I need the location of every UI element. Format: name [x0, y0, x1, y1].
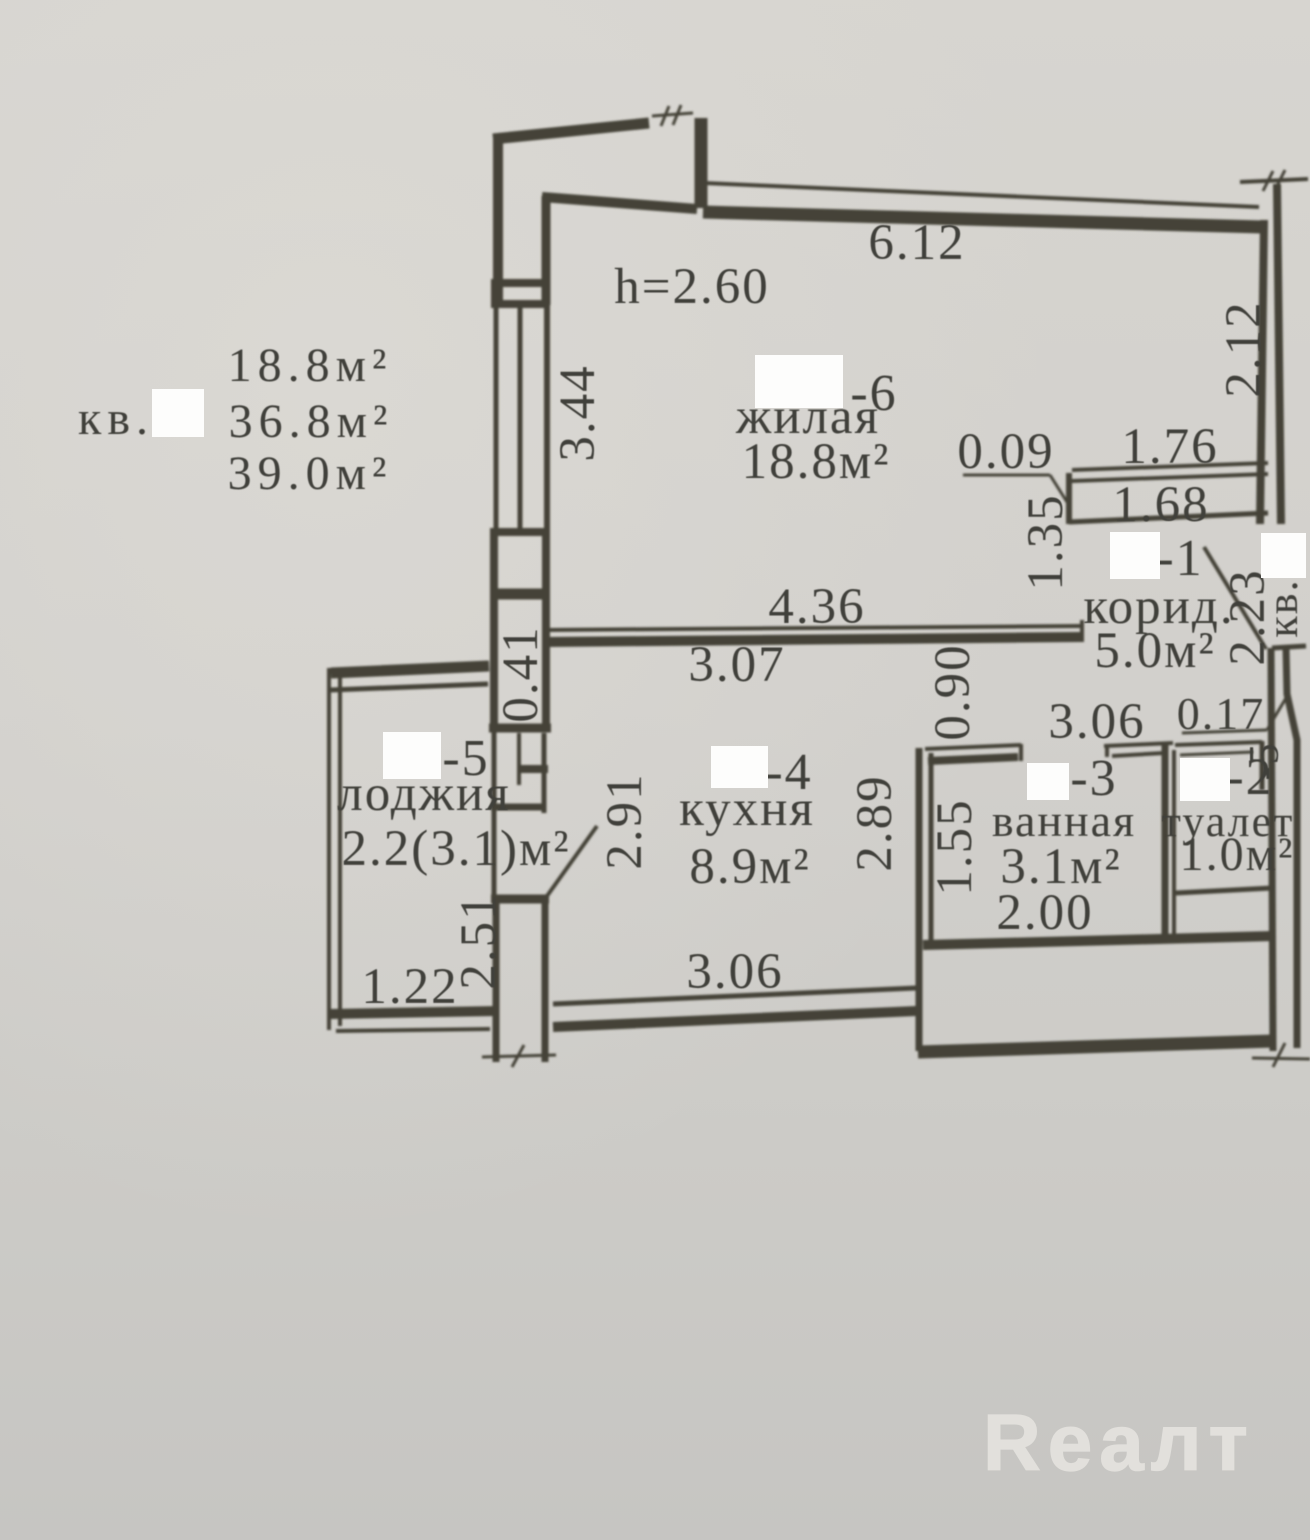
vannaya top thin: [925, 745, 1021, 749]
leader diagonal 2.23: [1204, 547, 1266, 649]
wall: zhilaya top thick line: [703, 212, 1263, 227]
svg-text:2.00: 2.00: [996, 885, 1093, 941]
svg-text:1.35: 1.35: [1018, 493, 1074, 590]
window2 (kitchen): [492, 732, 497, 896]
wall: right upper outer: [1277, 184, 1281, 524]
svg-text:-5: -5: [1242, 742, 1288, 781]
pier2 block with 0.41: [491, 528, 549, 536]
corridor 1.68 inner line: [1069, 513, 1268, 522]
svg-text:0.17: 0.17: [1177, 688, 1266, 739]
svg-text:2.2(3.1)м²: 2.2(3.1)м²: [341, 821, 570, 877]
svg-text:кв.: кв.: [1258, 578, 1307, 637]
svg-text:0.09: 0.09: [957, 424, 1054, 480]
svg-text:3.44: 3.44: [550, 364, 606, 461]
redaction -1: [1110, 532, 1160, 579]
break ticks top-center: [652, 113, 693, 116]
dim line 0.17: [1182, 730, 1267, 733]
lodzhiya top thin: [331, 684, 488, 690]
dim line 0.09: [963, 474, 1050, 477]
redaction -5: [383, 732, 441, 779]
vannaya door stub: [1019, 744, 1023, 761]
wall: bottom-right exterior: [918, 1041, 1274, 1052]
redaction kv number: [152, 389, 204, 437]
lodzhiya bottom thick: [330, 1011, 497, 1014]
svg-text:3.06: 3.06: [686, 944, 783, 1000]
svg-text:1.22: 1.22: [361, 959, 458, 1015]
svg-text:Reaлт: Reaлт: [983, 1398, 1255, 1487]
interior wall 4.36 thin: [545, 626, 1082, 630]
svg-text:h=2.60: h=2.60: [614, 259, 770, 315]
redaction right edge: [1261, 533, 1306, 578]
toilet inner top line: [1180, 752, 1253, 755]
svg-text:2.91: 2.91: [597, 772, 653, 869]
wall: right lower cap: [1272, 646, 1306, 648]
toilet top wall: [1175, 742, 1262, 745]
kitchen bottom thin: [553, 988, 916, 1004]
svg-text:18.8м²: 18.8м²: [228, 339, 393, 392]
interior wall end stub: [1080, 620, 1084, 642]
svg-text:1.55: 1.55: [927, 798, 983, 895]
svg-text:кухня: кухня: [679, 781, 815, 837]
lodzhiya top thick: [331, 666, 489, 673]
svg-text:3.07: 3.07: [688, 637, 785, 693]
svg-text:4.36: 4.36: [768, 579, 865, 635]
svg-text:3.06: 3.06: [1048, 694, 1145, 750]
vannaya left inner wall: [929, 753, 934, 941]
svg-text:-3: -3: [1070, 750, 1117, 807]
svg-text:1.68: 1.68: [1112, 477, 1209, 533]
svg-text:2.89: 2.89: [847, 774, 903, 871]
svg-text:1.0м²: 1.0м²: [1180, 828, 1295, 881]
pier3 bottom: [491, 895, 549, 904]
svg-text:8.9м²: 8.9м²: [689, 839, 810, 895]
redaction -3: [1027, 763, 1069, 800]
svg-text:36.8м²: 36.8м²: [229, 395, 394, 448]
window1 (zhilaya): [494, 307, 499, 528]
toilet bottom line: [1176, 888, 1272, 893]
redaction -2: [1180, 758, 1230, 801]
lodzhiya bottom thin: [336, 1029, 490, 1031]
wall: zhilaya inner top-left line: [542, 197, 697, 209]
svg-text:0.41: 0.41: [493, 625, 549, 722]
break ticks bottom pier: [482, 1055, 556, 1057]
svg-text:2.51: 2.51: [451, 892, 507, 989]
svg-text:39.0м²: 39.0м²: [228, 447, 393, 500]
interior wall 4.36 thick: [546, 637, 1082, 642]
leader diagonal 2.91: [547, 826, 597, 896]
redaction -6: [755, 355, 843, 408]
wall: top-left outer horizontal: [493, 123, 649, 139]
wall: right lower inner: [1271, 648, 1273, 1051]
lodzhiya left double: [327, 668, 331, 1030]
vannaya top thick: [928, 757, 1018, 761]
corridor left stub: [1066, 473, 1072, 524]
toilet right stub: [1260, 741, 1265, 790]
break tick bottom-right: [1252, 1058, 1310, 1059]
svg-text:2.12: 2.12: [1216, 300, 1272, 397]
wall: top pillar: [695, 118, 708, 208]
kitchen bottom thick: [553, 1011, 916, 1027]
break ticks top-right: [1240, 179, 1308, 182]
wall: right lower outer with 0.17 jog: [1286, 648, 1297, 1048]
partition between vannaya door and toilet: [1104, 743, 1173, 746]
vannaya left outer wall: [916, 748, 923, 1051]
vannaya bottom wall: [923, 936, 1274, 945]
svg-text:18.8м²: 18.8м²: [742, 434, 891, 490]
wall: zhilaya top thin line: [704, 183, 1259, 207]
svg-text:0.90: 0.90: [925, 643, 981, 740]
toilet left wall: [1162, 745, 1169, 939]
wall: left outer upper vertical: [493, 135, 503, 305]
svg-text:кв.: кв.: [78, 392, 154, 445]
wall: right upper inner: [1260, 220, 1264, 524]
corridor top wall thin double: [1072, 463, 1268, 470]
svg-text:5.0м²: 5.0м²: [1094, 623, 1215, 679]
redaction -4: [711, 746, 768, 788]
svg-text:6.12: 6.12: [868, 215, 965, 271]
wall: left inner upper vertical: [542, 196, 551, 305]
svg-text:1.76: 1.76: [1121, 419, 1218, 475]
left column: sill block pier1: [491, 279, 549, 287]
